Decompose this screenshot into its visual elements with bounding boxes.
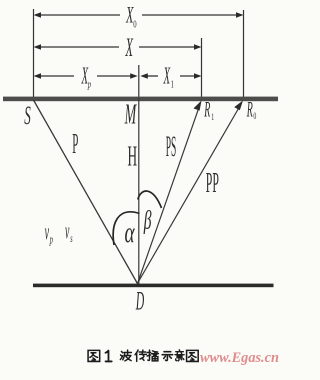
extension line at R1 [201,38,203,98]
caption character tu (图) [88,350,100,361]
caption character tu (图) second [187,350,199,361]
label X0 [125,3,136,30]
svg-text:P: P [72,127,78,160]
svg-text:p: p [49,233,53,247]
velocity label vp [45,219,53,248]
dimension line X [34,44,202,49]
ray P from S to D [34,100,138,284]
dimension line XP [34,73,138,78]
ray PS from D to R1 with arrowhead [138,101,202,284]
svg-text:R: R [246,97,253,122]
svg-text:1: 1 [171,78,174,90]
vertical line M to D [138,98,140,284]
caption character bo (波) [120,350,131,361]
svg-text:s: s [70,233,73,246]
caption character 1 [106,351,112,362]
extension line at S [33,9,35,98]
svg-text:v: v [45,219,50,245]
ray PP from D to R0 with arrowhead [138,101,243,284]
svg-text:v: v [65,218,70,244]
svg-text:1: 1 [211,112,214,123]
svg-text:H: H [128,140,138,172]
caption character shi (示) [162,352,173,361]
svg-text:www.Egas.cn: www.Egas.cn [200,350,279,366]
velocity label vs [65,218,73,246]
dimension line X1 [140,73,201,78]
angle arc beta [138,191,162,208]
svg-text:S: S [24,102,31,130]
dimension line X0 [34,12,244,17]
svg-text:R: R [204,97,211,122]
svg-text:α: α [125,217,136,249]
svg-text:0: 0 [253,111,256,122]
svg-text:PP: PP [206,167,219,198]
svg-text:β: β [143,205,152,234]
caption character yi (意) [175,350,184,361]
svg-text:X: X [163,63,171,90]
svg-text:PS: PS [166,129,177,163]
node R1 [204,97,215,122]
svg-text:X: X [125,34,134,62]
surface line (ground) [3,97,278,102]
caption character chuan (传) [135,350,146,361]
label XP [81,63,92,90]
caption character bo (播) [147,350,158,361]
extension line at M [138,65,140,98]
angle arc alpha [113,212,139,245]
label X1 [163,63,174,90]
svg-text:M: M [124,98,137,130]
svg-text:p: p [87,78,91,90]
svg-text:D: D [135,288,144,316]
extension line at R0 [243,10,245,99]
bottom interface line [33,284,274,288]
svg-text:0: 0 [133,18,136,30]
node R0 [246,97,256,122]
